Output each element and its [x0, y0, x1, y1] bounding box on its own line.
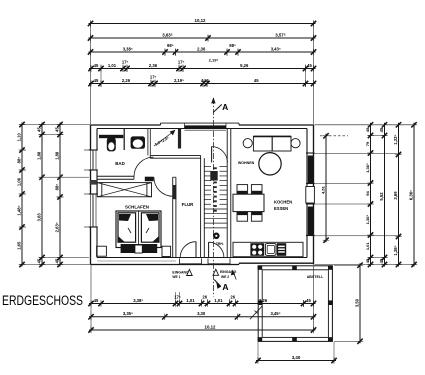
svg-text:WE 2: WE 2	[221, 275, 229, 279]
svg-text:45: 45	[254, 78, 259, 83]
svg-text:45: 45	[365, 258, 370, 263]
svg-text:1,01: 1,01	[365, 242, 370, 251]
svg-text:26: 26	[202, 294, 207, 299]
svg-text:3,50: 3,50	[355, 298, 360, 307]
svg-text:45: 45	[379, 258, 384, 263]
svg-text:4,51: 4,51	[201, 78, 210, 83]
svg-text:98⁵: 98⁵	[229, 43, 236, 48]
svg-text:3,63: 3,63	[37, 213, 42, 222]
svg-text:1,65: 1,65	[17, 241, 22, 250]
svg-text:3,38⁵: 3,38⁵	[133, 298, 143, 303]
svg-text:3,45⁵: 3,45⁵	[270, 311, 280, 316]
svg-text:WOHNEN: WOHNEN	[238, 161, 255, 165]
svg-text:EINGANG: EINGANG	[172, 270, 189, 274]
svg-text:2,36: 2,36	[197, 46, 206, 51]
svg-text:5,26: 5,26	[240, 63, 249, 68]
svg-text:1,01: 1,01	[214, 298, 223, 303]
svg-text:45: 45	[94, 298, 99, 303]
svg-text:45: 45	[306, 298, 311, 303]
svg-text:88⁵: 88⁵	[17, 157, 22, 164]
svg-text:45: 45	[379, 127, 384, 132]
svg-text:1,01: 1,01	[108, 63, 117, 68]
svg-text:SCHLAFEN: SCHLAFEN	[125, 204, 149, 209]
svg-text:45: 45	[55, 258, 60, 263]
svg-text:10,12: 10,12	[195, 18, 207, 23]
svg-text:A: A	[222, 282, 228, 292]
svg-text:1,88: 1,88	[55, 151, 60, 160]
svg-text:2,36: 2,36	[149, 63, 158, 68]
svg-text:2,63⁵: 2,63⁵	[55, 222, 60, 232]
svg-text:ERDGESCHOSS: ERDGESCHOSS	[2, 293, 83, 309]
svg-text:KOCHEN: KOCHEN	[274, 200, 292, 205]
svg-text:3,38⁵: 3,38⁵	[123, 46, 133, 51]
svg-text:ABSTELL: ABSTELL	[307, 275, 324, 279]
svg-text:94: 94	[365, 191, 370, 196]
svg-text:1,36⁵: 1,36⁵	[365, 163, 370, 173]
svg-text:3,30: 3,30	[197, 311, 206, 316]
svg-text:17⁵: 17⁵	[174, 294, 181, 299]
svg-text:3,69: 3,69	[393, 191, 398, 200]
svg-text:17⁵: 17⁵	[178, 60, 185, 65]
svg-text:45: 45	[365, 127, 370, 132]
svg-text:2,19⁵: 2,19⁵	[174, 78, 184, 83]
svg-text:1,48⁵: 1,48⁵	[17, 205, 22, 215]
svg-text:4,51: 4,51	[321, 185, 326, 194]
svg-text:10,12: 10,12	[205, 324, 217, 329]
svg-text:3,57⁵: 3,57⁵	[275, 32, 286, 37]
svg-text:88⁵: 88⁵	[55, 184, 60, 191]
svg-text:1,33⁵: 1,33⁵	[393, 135, 398, 145]
svg-text:A: A	[222, 102, 228, 112]
svg-text:45: 45	[94, 78, 99, 83]
svg-text:1,38⁵: 1,38⁵	[393, 245, 398, 255]
svg-text:WE 1: WE 1	[172, 275, 180, 279]
svg-text:TRH.: TRH.	[216, 242, 224, 246]
svg-text:98⁵: 98⁵	[167, 43, 174, 48]
svg-text:17⁵: 17⁵	[150, 75, 157, 80]
svg-text:1,06: 1,06	[17, 177, 22, 186]
svg-text:45: 45	[94, 63, 99, 68]
svg-text:2,19⁵: 2,19⁵	[209, 58, 219, 63]
svg-text:ESSEN: ESSEN	[274, 206, 288, 211]
svg-text:BAD: BAD	[115, 161, 125, 166]
svg-text:1,01: 1,01	[186, 298, 195, 303]
svg-text:45: 45	[37, 127, 42, 132]
svg-text:2,26: 2,26	[122, 78, 131, 83]
svg-text:17⁵: 17⁵	[122, 60, 129, 65]
svg-text:3,40: 3,40	[292, 355, 301, 360]
svg-text:3,63⁵: 3,63⁵	[162, 32, 173, 37]
svg-text:79: 79	[365, 141, 370, 146]
svg-text:26: 26	[230, 294, 235, 299]
svg-text:3,26: 3,26	[259, 298, 268, 303]
svg-text:45: 45	[37, 258, 42, 263]
svg-text:6,36⁵: 6,36⁵	[409, 190, 414, 200]
svg-text:FLUR: FLUR	[182, 202, 195, 207]
svg-text:3,35⁵: 3,35⁵	[123, 311, 133, 316]
svg-text:45: 45	[55, 127, 60, 132]
svg-text:45: 45	[307, 63, 312, 68]
svg-text:5,52: 5,52	[379, 192, 384, 201]
svg-text:1,10: 1,10	[17, 133, 22, 142]
svg-text:3,43⁵: 3,43⁵	[271, 46, 281, 51]
svg-text:1,88: 1,88	[37, 151, 42, 160]
svg-text:1,36⁵: 1,36⁵	[365, 215, 370, 225]
